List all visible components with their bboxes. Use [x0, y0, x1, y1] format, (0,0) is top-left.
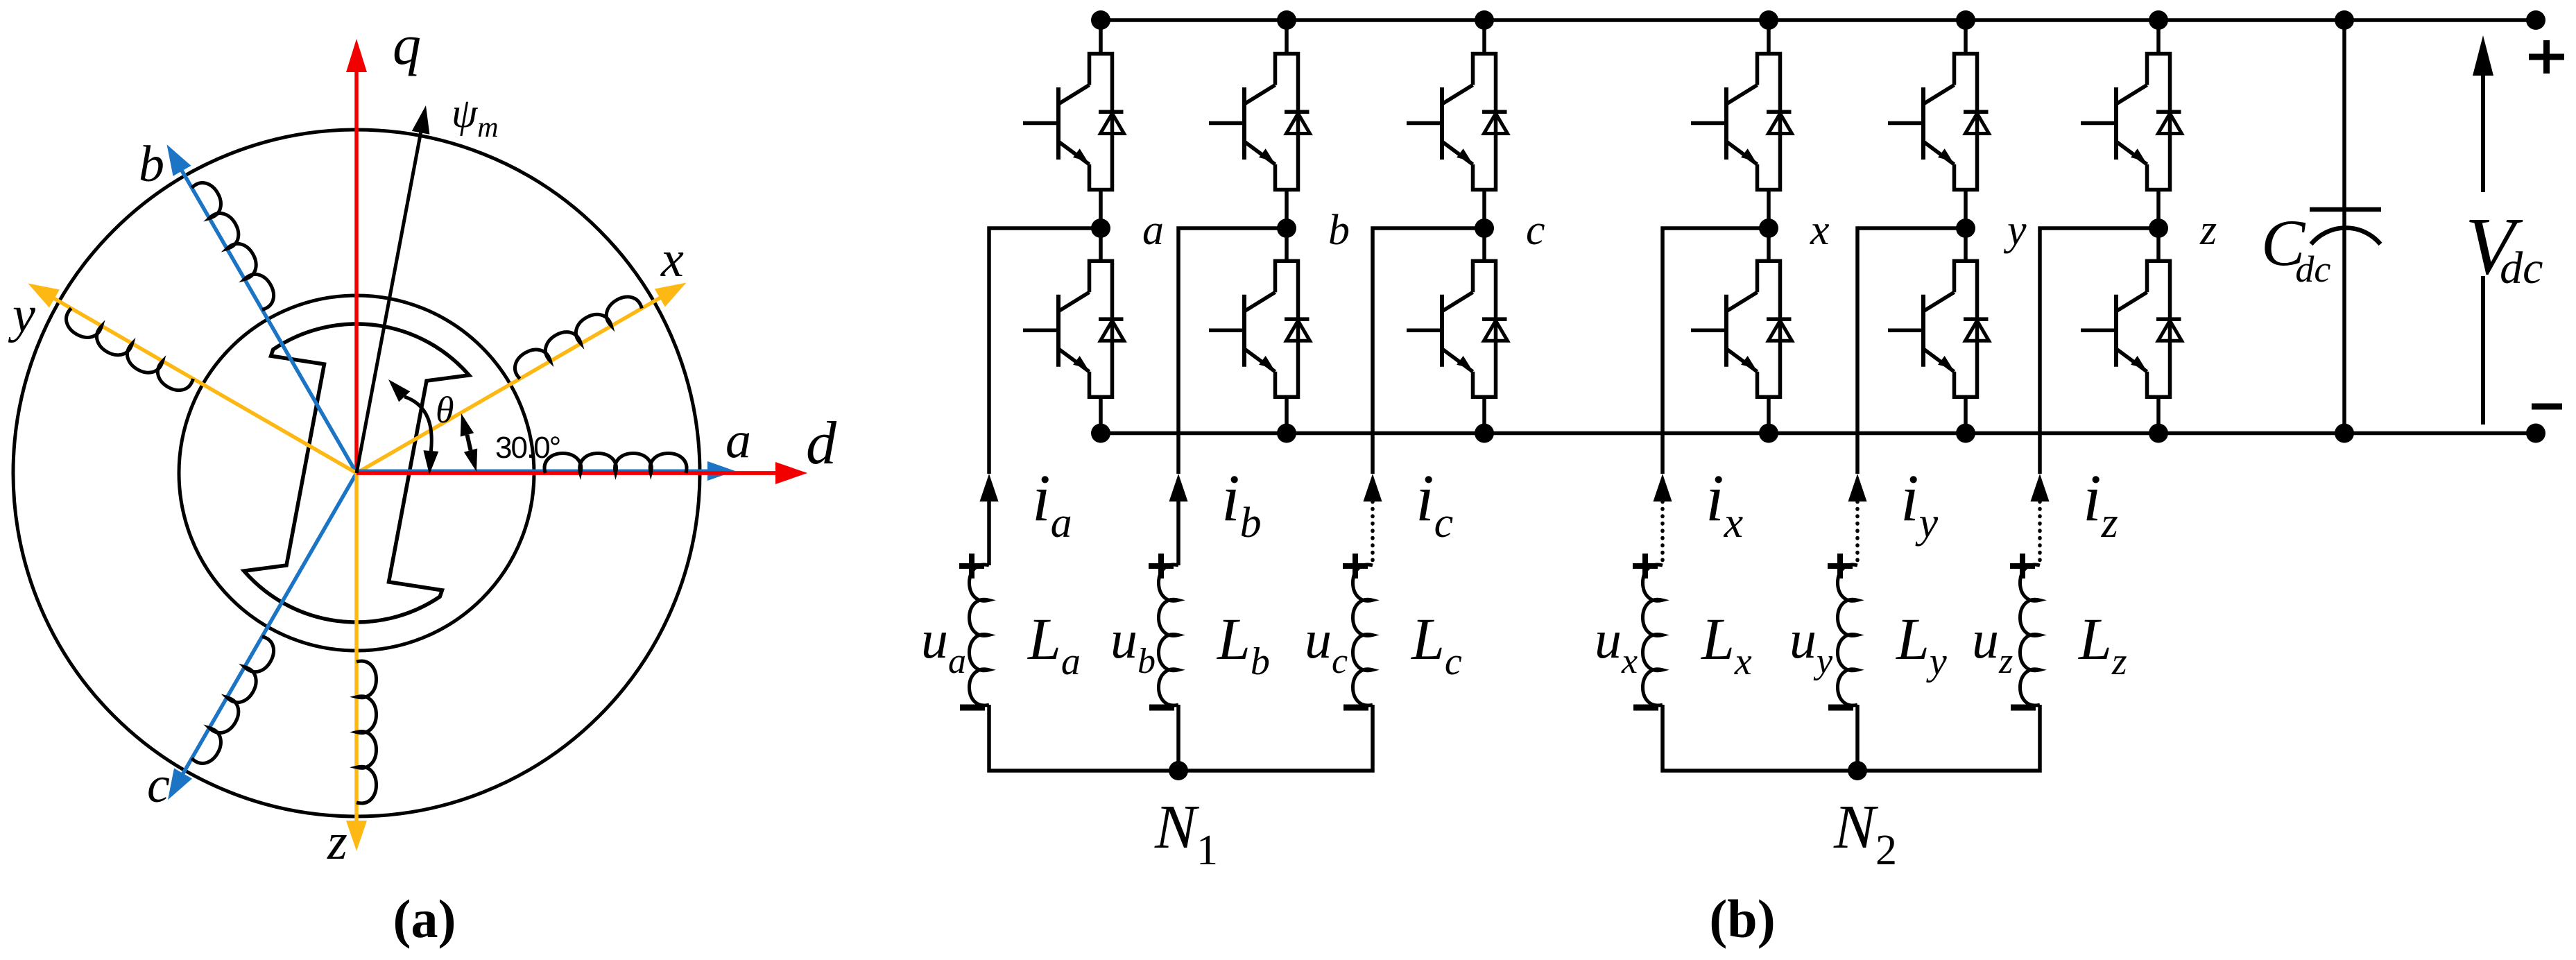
neutral bus N2 wire: [1663, 705, 2040, 771]
svg-text:a: a: [1142, 207, 1164, 254]
node b junction dot: [1277, 218, 1296, 238]
svg-text:iy: iy: [1900, 461, 1939, 547]
leg b: wire upper IGBT to node: [1285, 190, 1289, 229]
IGBT+diode switch, leg y upper: [1888, 54, 1989, 190]
svg-text:q: q: [393, 13, 421, 76]
leg a: lower lead wire: [1099, 397, 1103, 433]
junction dot, -rail capacitor: [2335, 424, 2354, 443]
svg-text:Vdc: Vdc: [2465, 200, 2543, 293]
junction dot, -rail leg y: [1956, 424, 1975, 443]
node a junction dot: [1091, 218, 1110, 238]
z-axis: [346, 473, 367, 851]
leg y: wire upper IGBT to node: [1964, 190, 1968, 229]
phase y wire to N2: [1855, 705, 1860, 771]
leg z: wire upper IGBT to node: [2156, 190, 2161, 229]
30 degree dimension arrow: [461, 413, 477, 472]
svg-text:uc: uc: [1305, 609, 1348, 681]
svg-text:(a): (a): [393, 889, 456, 949]
junction dot, +rail leg y: [1956, 10, 1975, 30]
svg-text:N2: N2: [1833, 793, 1897, 874]
leg c: lower lead wire: [1482, 397, 1486, 433]
svg-text:y: y: [2003, 207, 2027, 254]
plus polarity mark, phase c: [1343, 554, 1368, 578]
svg-text:ix: ix: [1706, 461, 1744, 547]
q-axis: [346, 39, 367, 473]
stator winding coil, phase z: [357, 661, 377, 803]
svg-text:c: c: [1526, 207, 1545, 254]
svg-text:iz: iz: [2083, 461, 2118, 547]
leg x: lower lead wire: [1767, 397, 1771, 433]
IGBT+diode switch, leg c upper: [1407, 54, 1508, 190]
current arrow i_y: [1848, 474, 1867, 502]
plus polarity mark, phase b: [1149, 554, 1174, 578]
rotor (2-pole IPM cross-section): [244, 324, 470, 622]
leg x: wire upper IGBT to node: [1767, 190, 1771, 229]
leg a: wire node to lower IGBT: [1099, 228, 1103, 261]
junction dot, +rail leg c: [1475, 10, 1494, 30]
leg z: wire node to lower IGBT: [2156, 228, 2161, 261]
minus polarity mark, phase a: [960, 705, 985, 711]
svg-text:ua: ua: [921, 609, 966, 681]
current arrow i_x: [1654, 474, 1672, 502]
winding inductor L_c: [1353, 565, 1373, 705]
dotted wire arrow to coil, phase x: [1660, 502, 1665, 565]
leg z: lower lead wire: [2156, 397, 2161, 433]
dotted wire arrow to coil, phase c: [1371, 502, 1375, 565]
stator outer circle: [13, 130, 700, 816]
svg-text:La: La: [1027, 606, 1081, 683]
IGBT+diode switch, leg z upper: [2081, 54, 2182, 190]
dotted wire arrow to coil, phase y: [1855, 502, 1860, 565]
IGBT+diode switch, leg y lower: [1888, 261, 1989, 397]
svg-text:(b): (b): [1709, 889, 1775, 949]
svg-text:Lc: Lc: [1410, 606, 1462, 683]
stator bore circle: [179, 295, 534, 651]
IGBT+diode switch, leg a lower: [1023, 261, 1124, 397]
phase x output wire (node jog + vertical drop): [1663, 228, 1769, 474]
DC bus positive rail: [1101, 18, 2536, 22]
stator winding coil, phase x: [509, 291, 642, 379]
leg x: wire node to lower IGBT: [1767, 228, 1771, 261]
svg-text:Lx: Lx: [1700, 606, 1752, 683]
plus polarity mark, phase a: [959, 554, 984, 578]
winding inductor L_x: [1643, 565, 1663, 705]
phase y output wire (node jog + vertical drop): [1857, 228, 1966, 474]
junction dot, +rail leg z: [2149, 10, 2168, 30]
junction dot, +rail leg x: [1759, 10, 1778, 30]
plus sign DC bus: [2529, 40, 2564, 74]
junction dot, -rail leg c: [1475, 424, 1494, 443]
wire arrow to coil, phase a: [987, 502, 991, 565]
current arrow i_a: [980, 474, 999, 502]
junction dot, +rail capacitor: [2335, 10, 2354, 30]
junction dot, +rail leg b: [1277, 10, 1296, 30]
stator winding coil, phase a: [544, 454, 687, 474]
svg-text:Ly: Ly: [1895, 606, 1947, 683]
junction dot, -rail leg b: [1277, 424, 1296, 443]
leg b: lower lead wire: [1285, 397, 1289, 433]
neutral point N1 dot: [1169, 761, 1188, 780]
leg a: wire upper IGBT to node: [1099, 190, 1103, 229]
svg-text:ux: ux: [1595, 609, 1638, 681]
node x junction dot: [1759, 218, 1778, 238]
phase a output wire (node jog + vertical drop): [989, 228, 1101, 474]
svg-text:ia: ia: [1032, 461, 1072, 547]
svg-text:b: b: [1328, 207, 1350, 254]
node c junction dot: [1475, 218, 1494, 238]
svg-text:c: c: [147, 757, 170, 814]
a-axis (blue, collinear with d): [357, 461, 735, 481]
leg b: upper lead wire: [1285, 20, 1289, 54]
svg-text:x: x: [1810, 207, 1830, 254]
terminal dot, +rail right end: [2526, 10, 2545, 30]
capacitor C_dc top plate: [2310, 207, 2381, 212]
minus polarity mark, phase c: [1343, 705, 1368, 711]
leg y: upper lead wire: [1964, 20, 1968, 54]
svg-text:a: a: [725, 412, 751, 469]
svg-text:ic: ic: [1416, 461, 1453, 547]
leg c: wire upper IGBT to node: [1482, 190, 1486, 229]
dotted wire arrow to coil, phase z: [2038, 502, 2042, 565]
d-axis red line overlay: [357, 462, 807, 484]
svg-text:z: z: [327, 814, 347, 871]
y-axis: [28, 284, 357, 474]
neutral point N2 dot: [1848, 761, 1867, 780]
svg-text:Lb: Lb: [1216, 606, 1270, 683]
winding inductor L_a: [970, 565, 990, 705]
IGBT+diode switch, leg z lower: [2081, 261, 2182, 397]
plus polarity mark, phase y: [1828, 554, 1853, 578]
wire arrow to coil, phase b: [1176, 502, 1180, 565]
c-axis: [168, 473, 357, 800]
svg-text:ub: ub: [1110, 609, 1156, 681]
winding inductor L_z: [2020, 565, 2041, 705]
svg-text:uy: uy: [1789, 609, 1833, 681]
terminal dot, -rail right end: [2526, 424, 2545, 443]
plus polarity mark, phase z: [2010, 554, 2035, 578]
current arrow i_b: [1169, 474, 1188, 502]
leg x: upper lead wire: [1767, 20, 1771, 54]
svg-text:Lz: Lz: [2077, 606, 2127, 683]
svg-text:ψm: ψm: [452, 90, 499, 144]
leg y: lower lead wire: [1964, 397, 1968, 433]
b-axis: [167, 144, 357, 473]
theta angle arc: [388, 379, 438, 474]
minus polarity mark, phase y: [1828, 705, 1853, 711]
leg a: upper lead wire: [1099, 20, 1103, 54]
IGBT+diode switch, leg x upper: [1691, 54, 1792, 190]
svg-text:d: d: [806, 410, 837, 477]
svg-text:N1: N1: [1154, 793, 1218, 874]
current arrow i_z: [2031, 474, 2050, 502]
junction dot, +rail leg a: [1091, 10, 1110, 30]
current arrow i_c: [1364, 474, 1382, 502]
phase b output wire (node jog + vertical drop): [1178, 228, 1287, 474]
IGBT+diode switch, leg b upper: [1209, 54, 1310, 190]
svg-text:uz: uz: [1972, 609, 2013, 681]
leg y: wire node to lower IGBT: [1964, 228, 1968, 261]
svg-text:z: z: [2199, 207, 2217, 254]
svg-text:b: b: [139, 136, 164, 193]
minus polarity mark, phase z: [2011, 705, 2036, 711]
DC bus negative rail: [1101, 431, 2536, 436]
neutral bus N1 wire: [989, 705, 1373, 771]
IGBT+diode switch, leg x lower: [1691, 261, 1792, 397]
node y junction dot: [1956, 218, 1975, 238]
phase b wire to N1: [1176, 705, 1180, 771]
x-axis: [357, 283, 686, 474]
svg-text:θ: θ: [436, 389, 454, 431]
stator winding coil, phase y: [61, 308, 194, 396]
svg-text:30.0°: 30.0°: [495, 431, 560, 465]
junction dot, -rail leg x: [1759, 424, 1778, 443]
IGBT+diode switch, leg a upper: [1023, 54, 1124, 190]
IGBT+diode switch, leg b lower: [1209, 261, 1310, 397]
leg c: upper lead wire: [1482, 20, 1486, 54]
stator winding coil, phase c: [191, 636, 280, 769]
winding inductor L_y: [1838, 565, 1858, 705]
junction dot, -rail leg a: [1091, 424, 1110, 443]
leg c: wire node to lower IGBT: [1482, 228, 1486, 261]
minus sign DC bus: [2532, 404, 2562, 410]
capacitor C_dc curved plate: [2311, 228, 2380, 244]
leg b: wire node to lower IGBT: [1285, 228, 1289, 261]
phase z output wire (node jog + vertical drop): [2040, 228, 2158, 474]
junction dot, -rail leg z: [2149, 424, 2168, 443]
winding inductor L_b: [1159, 565, 1179, 705]
DC-link capacitor C_dc branch wire: [2342, 20, 2346, 434]
leg z: upper lead wire: [2156, 20, 2161, 54]
svg-text:y: y: [8, 286, 35, 343]
V_dc voltage arrow: [2473, 35, 2493, 425]
svg-text:Cdc: Cdc: [2261, 206, 2330, 290]
d-axis: [357, 463, 807, 483]
node z junction dot: [2149, 218, 2168, 238]
minus polarity mark, phase x: [1633, 705, 1658, 711]
stator winding coil, phase b: [191, 178, 280, 311]
plus polarity mark, phase x: [1633, 554, 1658, 578]
svg-text:x: x: [660, 231, 684, 288]
phase c output wire (node jog + vertical drop): [1373, 228, 1484, 474]
minus polarity mark, phase b: [1149, 705, 1174, 711]
IGBT+diode switch, leg c lower: [1407, 261, 1508, 397]
svg-text:ib: ib: [1221, 461, 1262, 547]
rotor flux vector psi_m: [357, 105, 429, 473]
